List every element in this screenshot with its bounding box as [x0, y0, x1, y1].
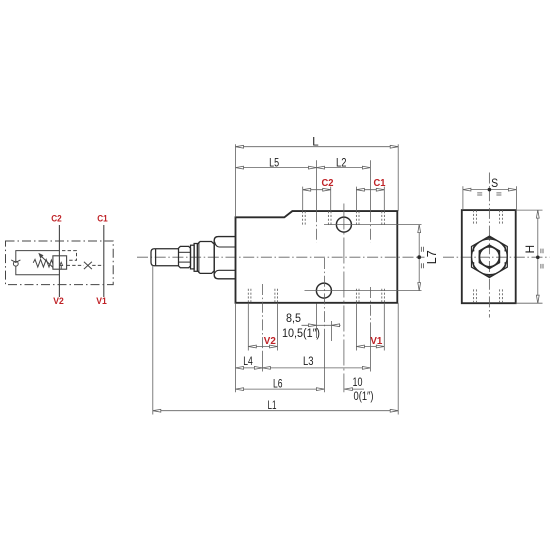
svg-text:V1: V1	[370, 335, 382, 347]
svg-text:L3: L3	[303, 356, 314, 368]
svg-text:L1: L1	[268, 400, 277, 412]
svg-text:0(1″): 0(1″)	[354, 391, 374, 403]
svg-text:S: S	[491, 176, 498, 190]
svg-text:L4: L4	[243, 356, 253, 368]
svg-text:V1: V1	[96, 296, 107, 307]
svg-text:C1: C1	[97, 214, 108, 225]
svg-text:C1: C1	[374, 177, 386, 189]
svg-text:L7: L7	[425, 250, 439, 264]
svg-text:L5: L5	[269, 157, 279, 169]
svg-text:10: 10	[353, 377, 363, 389]
svg-text:V2: V2	[264, 335, 276, 347]
svg-text:C2: C2	[51, 214, 62, 225]
svg-text:L6: L6	[273, 379, 283, 391]
svg-text:L: L	[312, 137, 319, 149]
svg-text:V2: V2	[53, 296, 64, 307]
svg-text:L2: L2	[336, 157, 347, 169]
svg-text:C2: C2	[322, 177, 334, 189]
svg-text:H: H	[523, 245, 537, 254]
svg-text:8,5: 8,5	[286, 313, 301, 325]
svg-text:10,5(1″): 10,5(1″)	[282, 328, 320, 340]
